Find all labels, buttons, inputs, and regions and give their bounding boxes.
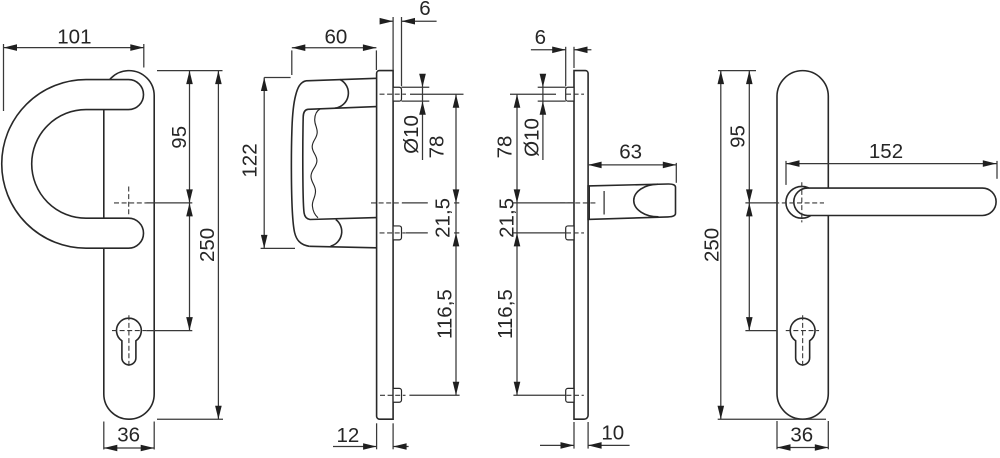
svg-text:Ø10: Ø10 <box>400 115 423 154</box>
svg-text:116,5: 116,5 <box>494 289 517 339</box>
svg-text:250: 250 <box>196 228 219 262</box>
svg-text:78: 78 <box>494 136 517 159</box>
svg-text:78: 78 <box>426 136 449 159</box>
svg-text:12: 12 <box>336 424 359 447</box>
svg-text:60: 60 <box>324 26 347 49</box>
svg-text:95: 95 <box>168 126 191 149</box>
svg-text:6: 6 <box>535 26 546 49</box>
svg-text:152: 152 <box>869 140 903 163</box>
svg-text:122: 122 <box>239 143 262 177</box>
svg-text:21,5: 21,5 <box>431 198 454 238</box>
svg-text:250: 250 <box>700 228 723 262</box>
svg-text:6: 6 <box>419 0 430 20</box>
svg-text:36: 36 <box>117 424 140 447</box>
svg-text:95: 95 <box>726 125 749 148</box>
svg-text:10: 10 <box>601 422 624 445</box>
svg-text:Ø10: Ø10 <box>521 118 544 157</box>
svg-text:101: 101 <box>57 25 91 48</box>
svg-text:36: 36 <box>790 424 813 447</box>
svg-text:63: 63 <box>619 140 642 163</box>
svg-text:21,5: 21,5 <box>496 198 519 238</box>
svg-text:116,5: 116,5 <box>433 289 456 339</box>
